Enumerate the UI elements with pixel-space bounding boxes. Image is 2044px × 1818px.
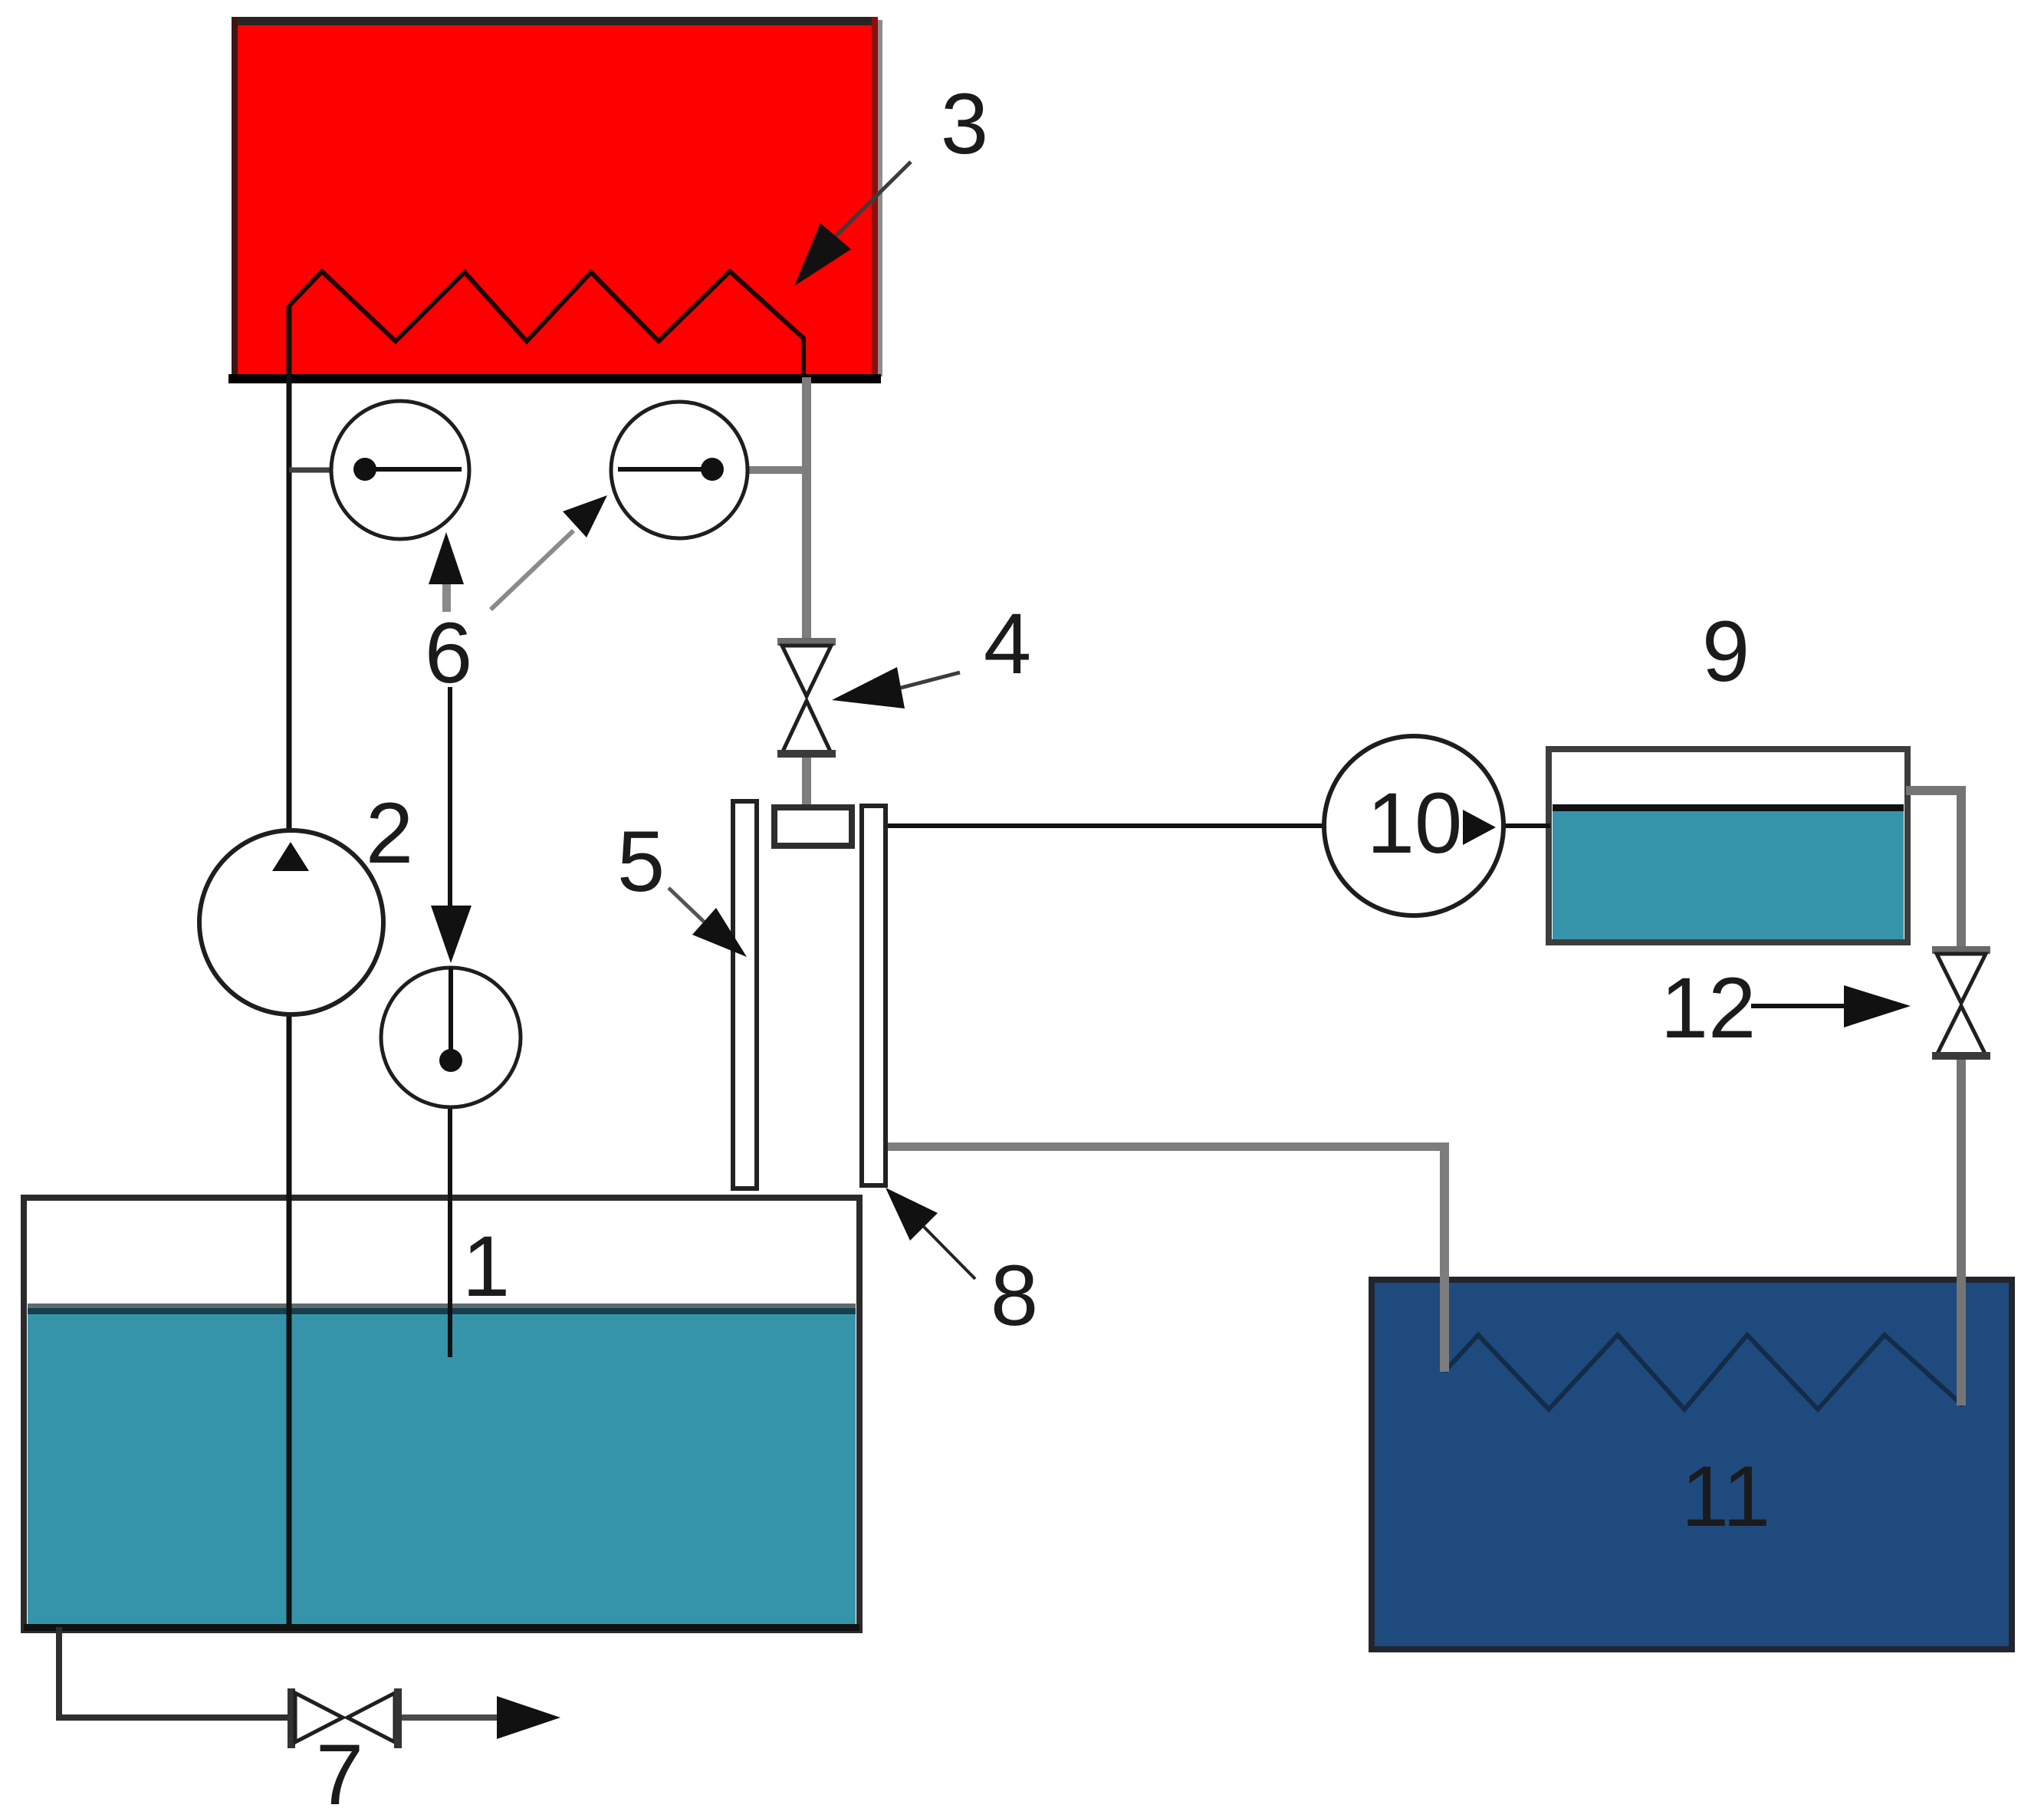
wire: gauge branch line from label 6 down into tank 1 [448, 687, 452, 909]
test section wall 8 (right bar) [862, 806, 886, 1185]
arrow up to left flow meter [429, 532, 464, 612]
wire: valve 7 outlet with arrow [400, 1714, 498, 1721]
flow meter 6 right (circle, dot right) [611, 402, 748, 538]
wire: horizontal gauge line right segment (gray) [746, 466, 807, 474]
svg-text:6: 6 [425, 605, 472, 701]
valve 4 (above test section) [777, 638, 836, 758]
svg-text:12: 12 [1661, 960, 1756, 1056]
cooling coil zigzag in tank 11 [1444, 1335, 1963, 1409]
pipe: gray pipe from heater right side down to valve 4 [802, 377, 811, 643]
pipe: test section lower outlet to tank 11 (gray) [886, 1142, 1444, 1151]
wire: tank 1 drain to valve 7 [59, 1627, 290, 1718]
pump 10 (circle with label and arrow) [1324, 736, 1503, 916]
valve 7 (drain, horizontal) [288, 1688, 402, 1748]
wire: left pipe from heater to pump 2 and into tank 1 [287, 306, 292, 1625]
wire: test section to pump 10 [886, 824, 1550, 828]
wire: horizontal gauge line left segment [289, 468, 334, 473]
tank 1 (condensate/supply tank, teal, bottom-left) [24, 1198, 859, 1631]
svg-text:2: 2 [366, 785, 413, 881]
flow meter 6 left (circle, dot left) [331, 401, 469, 539]
pipe: tank 9 outlet to valve 12 [1906, 786, 1964, 795]
svg-text:7: 7 [316, 1727, 363, 1818]
label 5 with arrow [617, 814, 747, 957]
svg-text:4: 4 [984, 596, 1031, 692]
pump 2 (circle with up triangle) [199, 830, 383, 1014]
svg-text:8: 8 [991, 1248, 1038, 1343]
svg-text:9: 9 [1702, 603, 1750, 699]
tank 11 (cooling tank, navy, bottom-right) [1372, 1280, 2012, 1649]
svg-text:10: 10 [1367, 775, 1463, 871]
label 8 with arrow [886, 1188, 1038, 1343]
svg-text:1: 1 [462, 1218, 510, 1314]
label 12 with arrow [1661, 960, 1911, 1056]
svg-text:3: 3 [941, 76, 988, 172]
label 3 with arrow [794, 76, 988, 286]
pipe: from valve 4 down to test-section connector [802, 754, 811, 810]
svg-text:11: 11 [1681, 1448, 1770, 1544]
arrow diagonal to right flow meter [491, 495, 607, 610]
tank 9 (small teal tank, right) [1549, 749, 1908, 942]
svg-text:5: 5 [617, 814, 665, 909]
heater block 3 (red box, top) [228, 17, 882, 383]
valve 12 (right side) [1932, 946, 1990, 1060]
pipe: valve 12 down into tank 11 [1957, 1058, 1966, 1405]
test section connector (top header) [774, 807, 852, 846]
heating element zigzag in box 3 [289, 271, 803, 377]
gauge (lower circle with dot, part of 6) [381, 906, 521, 1107]
test section glass wall 5 (left bar) [733, 801, 757, 1188]
label 4 with arrow [832, 596, 1031, 708]
